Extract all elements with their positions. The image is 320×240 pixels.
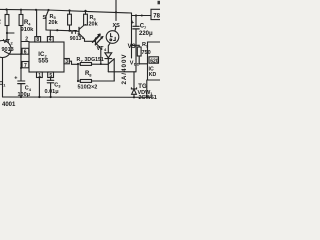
resistor 620 inside IC3 area [149, 57, 159, 63]
socket XS label [113, 23, 121, 29]
wire pin 7 [21, 62, 29, 68]
wire pin8/pin4 top bus [46, 29, 70, 32]
resistor R4 [19, 10, 23, 81]
capacitor C3 [47, 80, 54, 97]
svg-text:XS: XS [113, 23, 121, 29]
pin 1 label [38, 73, 41, 79]
resistor R6 label [89, 15, 99, 27]
node R7 left junction [77, 63, 102, 65]
svg-text:620: 620 [150, 58, 159, 64]
thyristor VS label [128, 44, 136, 50]
wire TG pin down from IC3 box [146, 80, 148, 97]
pin 3 label [65, 59, 68, 65]
svg-text:9013: 9013 [70, 36, 82, 42]
socket XS [106, 31, 119, 53]
svg-text:DD: DD [134, 62, 140, 67]
transistor VT2 [0, 33, 21, 97]
thyristor VS [105, 53, 114, 81]
switch S label [43, 15, 47, 21]
transistor VT4 label [97, 46, 108, 52]
svg-text:3DG151: 3DG151 [85, 57, 104, 63]
VS rating vertical label [121, 53, 128, 84]
svg-text:78: 78 [153, 13, 160, 19]
svg-text:+: + [131, 20, 134, 26]
zener diode VDW1 2CW51 [131, 72, 136, 98]
svg-text:910k: 910k [21, 27, 35, 33]
resistor R9 [132, 45, 148, 64]
capacitor C7 electrolytic [133, 16, 139, 72]
wire pin 6 [21, 48, 29, 54]
wire pin 2 [21, 41, 29, 43]
capacitor C4 electrolytic [18, 81, 25, 97]
svg-text:510Ω×2: 510Ω×2 [78, 84, 98, 90]
svg-text:+: + [14, 76, 17, 82]
node VDD label [130, 60, 140, 66]
svg-text:3: 3 [65, 59, 68, 65]
capacitor C4 labels [14, 76, 32, 99]
pin 6 label [24, 49, 27, 55]
resistor R7 [78, 63, 108, 66]
transistor VT3 label [70, 30, 82, 42]
wire pin 8 stub and pad [35, 10, 41, 42]
TG pin label [138, 84, 147, 90]
resistor R8 [78, 64, 114, 82]
resistor R9 label [142, 42, 151, 56]
socket XS feed wire from top edge [115, 0, 116, 31]
pin 8 label [36, 37, 39, 43]
diode D1 label [0, 81, 6, 87]
svg-text:4001: 4001 [2, 102, 16, 108]
node C7 junction [130, 14, 142, 46]
transistor VT4 [96, 35, 101, 64]
wire pin 3 [64, 59, 78, 65]
svg-text:20k: 20k [89, 21, 99, 27]
svg-text:2CW51: 2CW51 [139, 95, 157, 101]
svg-text:1: 1 [38, 73, 41, 79]
svg-text:2A/400V: 2A/400V [121, 53, 128, 84]
capacitor C3 labels [45, 82, 62, 95]
cut-off fragment top right [158, 1, 161, 5]
regulator label [153, 13, 160, 19]
voltage regulator box 78xx [151, 9, 161, 19]
svg-text:S: S [43, 15, 47, 21]
transistor VT3 [70, 25, 96, 41]
resistor R5 label [49, 14, 59, 26]
op-amp U1: IC2 555 timer box [29, 42, 64, 72]
resistor R4 label [21, 20, 35, 33]
node rail junction dots [5, 8, 117, 13]
wire pin 4 stub and pad [47, 30, 53, 42]
pin 4 label [49, 37, 52, 43]
wire stub from R3 node [7, 32, 14, 34]
pin 7 label [24, 63, 27, 69]
wire top supply rail [0, 9, 132, 13]
svg-text:9013: 9013 [2, 47, 14, 53]
node R5 bottom junction [56, 29, 70, 32]
caption 4001 [2, 102, 16, 108]
node R8 left junction [77, 80, 79, 82]
resistor R5 [68, 11, 72, 31]
node R3 bottom junction [6, 32, 22, 69]
svg-text:5: 5 [49, 73, 52, 79]
wire rail right corner down [131, 13, 133, 58]
zener VDW1 labels [138, 90, 157, 101]
resistor R8 label [78, 71, 98, 90]
wire pin 1 pad and down [37, 72, 43, 97]
node bottom rail junctions [20, 96, 135, 99]
light arrows toward socket [93, 33, 104, 44]
svg-text:750: 750 [142, 50, 151, 56]
svg-text:20k: 20k [49, 20, 59, 26]
IC3 box (cut off at right) [148, 42, 161, 80]
IC3 labels [149, 67, 157, 79]
svg-text:KD: KD [149, 72, 157, 78]
svg-text:0.01μ: 0.01μ [45, 89, 59, 95]
capacitor C7 labels [131, 20, 153, 37]
resistor R7 label [77, 57, 104, 64]
svg-text:555: 555 [38, 58, 49, 64]
resistor 620 label [150, 58, 159, 64]
resistor R3 label fragment (cut at edge) [0, 20, 2, 26]
transistor VT2 label [2, 39, 14, 53]
wire cathode to zener [108, 71, 136, 73]
svg-text:220μ: 220μ [139, 31, 153, 37]
wire pin 5 pad and down [48, 72, 54, 80]
wire bottom ground rail [3, 96, 153, 98]
resistor R6 [84, 11, 88, 25]
pin 2 label [25, 37, 28, 43]
IC2 value label [38, 52, 49, 65]
resistor R3 [5, 10, 9, 34]
pin 5 label [49, 73, 52, 79]
wire branch to C7 and regulator [132, 15, 152, 17]
switch S [46, 10, 49, 30]
